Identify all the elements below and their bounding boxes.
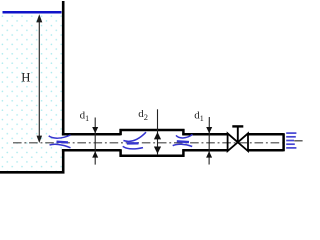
centerline tail at outlet (294, 140, 302, 142)
flow contraction symbol in d2 section (left) (123, 132, 146, 149)
pipe d1 inlet section walls (62, 134, 121, 150)
sudden contraction step (182, 129, 185, 157)
outlet jet lines (286, 133, 296, 148)
tank bottom (0, 171, 65, 174)
d1 dimension arrows (first) (92, 118, 98, 165)
d1 dimension arrows (second) (206, 117, 212, 165)
svg-text:H: H (21, 71, 30, 85)
valve (228, 126, 248, 151)
pipe d1 outlet section walls before valve (182, 134, 227, 150)
sudden expansion step (119, 129, 122, 157)
pipe centerline dash-dot (13, 142, 283, 144)
H dimension arrow (36, 14, 42, 143)
water surface line (3, 11, 62, 14)
flow contraction symbol at sudden contraction (173, 135, 193, 147)
pipe d1 section after valve (248, 134, 284, 150)
pipe outlet end cap (282, 133, 285, 151)
tank right wall lower segment (62, 149, 65, 173)
tank water dotted fill (0, 15, 62, 172)
d2 dimension line with inside arrows (154, 109, 161, 154)
tank right wall upper segment (62, 1, 65, 135)
pipe d2 section walls (120, 130, 185, 156)
flow contraction symbol at pipe entrance (49, 135, 71, 148)
